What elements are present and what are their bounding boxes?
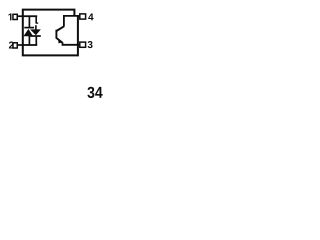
LED D2 (right, cathode down) branch wire upper segment: [35, 16, 37, 23]
page number 34: [87, 87, 102, 98]
pin 3 wire: [78, 44, 80, 46]
pin 4 pad: [80, 14, 86, 19]
pin 1 label: [8, 14, 11, 21]
LED D2 cathode bar: [30, 35, 41, 37]
pin 3 pad: [80, 42, 86, 47]
pin 4 label: [88, 14, 93, 21]
LED D1 cathode bar: [24, 27, 34, 29]
LED D2 branch wire lower segment to triangle: [35, 25, 37, 30]
LED D1 triangle (pointing up): [23, 29, 33, 36]
pin 2 pad: [13, 43, 17, 48]
Q1 emitter diagonal with arrow: [56, 38, 62, 43]
LED D2 arrow foot tick: [36, 22, 38, 24]
LED D1 (left, cathode up) branch wire upper: [28, 16, 30, 28]
pin 2 wire: [18, 44, 23, 46]
Q1 collector diagonal: [56, 26, 64, 31]
LED D1 branch wire lower: [28, 36, 30, 45]
Q1 base bar: [55, 30, 57, 39]
Q1 emitter wire to pin 3: [63, 43, 79, 45]
pin 3 label: [88, 41, 93, 48]
optocoupler package outline U1 (top-right corner notched to pin4 wire): [23, 10, 78, 56]
LED D2 branch wire lower: [35, 36, 37, 45]
phototransistor Q1 collector wire from pin 4: [64, 16, 78, 27]
LED D2 triangle (pointing down): [30, 29, 41, 35]
pin 2 label: [9, 42, 14, 49]
pin 1 wire: [18, 15, 23, 17]
pin 4 wire: [78, 15, 80, 17]
pin 1 pad: [13, 14, 17, 19]
wire: pin2 to LED bottom bar: [22, 44, 37, 46]
wire: pin1 to LED top bar: [22, 15, 37, 17]
